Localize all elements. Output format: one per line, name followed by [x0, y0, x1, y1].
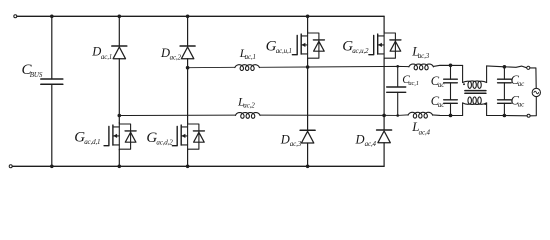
label C_ac A-lower: [431, 94, 446, 109]
capacitor C_ac A-lower: [444, 100, 458, 104]
label C_ac B-upper: [511, 73, 526, 88]
wire leg3 bottom lead: [307, 143, 309, 166]
input terminal positive: [14, 15, 17, 18]
transistor G_ac,u,1: [292, 32, 324, 59]
transformer primary winding: [463, 81, 487, 88]
diode D_ac,1: [112, 46, 127, 59]
label C_BUS: [22, 62, 43, 79]
wire L_ac,2 right lead: [260, 114, 384, 116]
inductor L_ac,3: [409, 64, 433, 70]
svg-text:D: D: [280, 132, 290, 146]
svg-text:ac,1: ac,1: [101, 53, 112, 61]
junction bottom leg2: [186, 165, 190, 169]
capacitor C_ac,1: [387, 87, 406, 92]
svg-text:ac: ac: [438, 101, 445, 109]
wire transformer riser top-left: [462, 65, 464, 82]
wire leg4 top lead: [383, 16, 385, 32]
inductor L_ac,1: [235, 65, 259, 71]
wire C_BUS lower lead: [51, 84, 53, 166]
node primary polarity dot: [463, 83, 465, 85]
wire top rail left: [433, 65, 462, 66]
junction C_ac branchB top: [503, 65, 507, 69]
wire leg4 bottom lead: [383, 143, 385, 167]
diode D_ac,3: [300, 130, 315, 143]
wire L_ac,1 left lead: [188, 66, 235, 68]
transistor G_ac,d,2: [172, 123, 204, 150]
svg-text:ac,1: ac,1: [245, 53, 256, 61]
svg-text:ac,3: ac,3: [418, 52, 430, 60]
junction bottom leg3: [306, 165, 310, 169]
svg-text:ac,2: ac,2: [170, 53, 182, 61]
wire L_ac,1 right lead: [259, 66, 384, 69]
capacitor C_ac B-lower: [498, 100, 512, 104]
svg-text:ac,2: ac,2: [243, 101, 255, 109]
svg-text:D: D: [355, 132, 365, 146]
wire leg4 to L_ac,4: [384, 114, 408, 117]
label C_ac A-upper: [431, 74, 446, 89]
junction C_ac,1 bottom tap: [396, 114, 399, 117]
junction top leg1: [118, 14, 122, 18]
junction top leg2: [186, 14, 190, 18]
junction C_ac branchA top: [449, 64, 453, 68]
transformer secondary winding: [463, 97, 487, 104]
label L_ac,4: [411, 119, 430, 136]
wire leg3 middle: [307, 58, 309, 130]
transistor G_ac,u,2: [369, 32, 401, 59]
wire C_ac branchA upper lead: [450, 65, 452, 79]
junction top leg3: [306, 14, 310, 18]
transistor G_ac,d,1: [104, 123, 136, 150]
svg-text:ac: ac: [518, 101, 525, 109]
output terminal bottom: [527, 114, 530, 117]
diode D_ac,4: [377, 130, 392, 143]
wire bottom rail right: [487, 115, 527, 117]
wire C_ac,1 bottom lead: [397, 92, 399, 115]
svg-text:ac,1: ac,1: [408, 80, 418, 87]
wire source to terminal bottom: [530, 97, 536, 116]
wire C_BUS upper lead: [51, 16, 53, 79]
junction C_ac branchB bottom: [503, 114, 507, 118]
junction leg1 phase tap: [118, 114, 122, 118]
svg-text:ac,u,2: ac,u,2: [352, 47, 369, 55]
output terminal top: [527, 66, 530, 69]
svg-text:ac,3: ac,3: [290, 140, 302, 148]
wire bottom rail left: [433, 114, 463, 117]
wire leg1 bottom lead: [118, 149, 120, 166]
wire leg4 middle: [383, 58, 385, 130]
diode D_ac,2: [180, 46, 195, 59]
wire bottom bus: [12, 165, 384, 167]
wire terminal to source top: [530, 68, 536, 88]
wire L_ac,2 left lead: [119, 114, 235, 116]
wire leg2 bottom lead: [187, 149, 189, 166]
wire leg2 middle: [187, 59, 189, 123]
label G_ac,u,2: [342, 38, 369, 54]
label L_ac,1: [239, 46, 256, 61]
wire leg1 top lead: [118, 16, 120, 46]
svg-text:ac,d,1: ac,d,1: [84, 138, 100, 146]
wire C_ac,1 top lead: [397, 66, 399, 87]
wire top bus: [17, 15, 384, 17]
wire transformer riser top-right: [486, 66, 488, 83]
wire leg3 top lead: [307, 16, 309, 32]
svg-text:ac,d,2: ac,d,2: [156, 138, 173, 146]
label D_ac,2: [160, 46, 182, 61]
label C_ac B-lower: [511, 94, 526, 109]
label D_ac,1: [91, 45, 112, 61]
junction leg2 phase tap: [186, 66, 190, 70]
capacitor C_ac B-upper: [498, 79, 512, 83]
wire C_ac branchB upper lead: [503, 67, 505, 79]
svg-text:ac,4: ac,4: [419, 128, 431, 136]
label G_ac,u,1: [266, 39, 292, 55]
junction bottom leg1: [118, 165, 122, 169]
label G_ac,d,2: [146, 130, 173, 146]
label L_ac,2: [237, 95, 255, 110]
transformer core: [465, 91, 486, 94]
junction top C_BUS: [50, 14, 54, 18]
svg-text:ac,4: ac,4: [365, 140, 377, 148]
wire top rail right: [487, 66, 527, 68]
junction bottom C_BUS: [50, 165, 54, 169]
svg-text:D: D: [91, 45, 101, 59]
junction leg3 phase tap: [306, 65, 310, 69]
input terminal negative: [9, 165, 12, 168]
label L_ac,3: [411, 44, 430, 61]
wire leg4 to L_ac,3: [384, 65, 409, 67]
label G_ac,d,1: [74, 129, 100, 146]
wire transformer riser bottom-right: [486, 103, 488, 116]
wire C_ac branchB lower lead: [503, 103, 505, 115]
wire C_ac branchB middle: [503, 83, 505, 100]
inductor L_ac,2: [236, 113, 260, 119]
junction leg4 phase tap: [382, 114, 386, 118]
label C_ac,1: [402, 74, 419, 87]
svg-text:BUS: BUS: [30, 71, 43, 79]
ac source: [532, 88, 540, 96]
wire C_ac branchA middle: [450, 83, 452, 100]
junction C_ac,1 top tap: [396, 65, 399, 68]
junction C_ac branchA bottom: [449, 114, 453, 118]
node secondary polarity dot: [484, 103, 486, 105]
capacitor C_BUS: [41, 79, 63, 84]
capacitor C_ac A-upper: [444, 79, 458, 83]
wire leg2 top lead: [187, 16, 189, 46]
label D_ac,3: [280, 132, 302, 148]
inductor L_ac,4: [408, 112, 432, 118]
svg-text:ac: ac: [438, 81, 445, 89]
label D_ac,4: [355, 132, 377, 148]
svg-text:D: D: [160, 46, 170, 60]
svg-text:ac: ac: [518, 80, 525, 88]
wire transformer riser bottom-left: [462, 103, 464, 116]
svg-text:ac,u,1: ac,u,1: [276, 47, 292, 55]
wire C_ac branchA lower lead: [450, 103, 452, 115]
wire leg1 middle: [118, 59, 120, 123]
